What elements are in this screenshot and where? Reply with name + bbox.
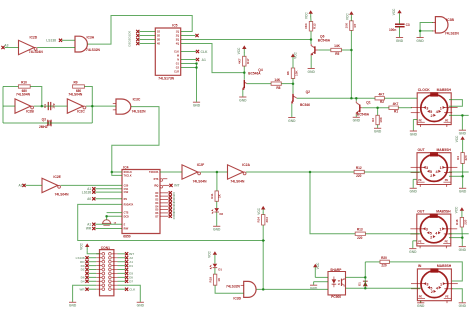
- svg-text:VCC: VCC: [257, 207, 261, 214]
- svg-text:CLOCK: CLOCK: [418, 88, 431, 92]
- svg-text:CLK: CLK: [129, 287, 136, 291]
- svg-text:R8: R8: [276, 86, 280, 90]
- svg-text:BC546A: BC546A: [248, 72, 261, 76]
- svg-text:BC546A: BC546A: [318, 38, 331, 42]
- svg-text:GND: GND: [353, 119, 361, 123]
- svg-text:220: 220: [381, 264, 387, 268]
- svg-text:TXDATA: TXDATA: [149, 171, 159, 174]
- svg-text:VCC: VCC: [455, 135, 459, 142]
- svg-text:TXCLK: TXCLK: [124, 175, 132, 178]
- svg-text:IC3D: IC3D: [233, 296, 241, 300]
- svg-text:3: 3: [426, 228, 428, 232]
- svg-text:D1: D1: [172, 195, 176, 199]
- svg-text:WR: WR: [86, 227, 92, 231]
- svg-text:RXDATA: RXDATA: [124, 204, 134, 207]
- svg-text:2MHZ: 2MHZ: [39, 125, 48, 129]
- svg-text:IRQ: IRQ: [154, 185, 158, 188]
- svg-text:A0: A0: [87, 197, 91, 201]
- svg-text:VCC: VCC: [80, 242, 84, 249]
- svg-text:2: 2: [431, 114, 433, 118]
- svg-text:GND: GND: [239, 98, 247, 102]
- svg-text:GND: GND: [410, 132, 418, 136]
- svg-text:4K7: 4K7: [378, 93, 384, 97]
- svg-text:CLR: CLR: [174, 71, 179, 74]
- svg-text:R/W: R/W: [124, 228, 129, 231]
- svg-text:220: 220: [356, 174, 362, 178]
- svg-text:A2: A2: [18, 184, 22, 188]
- svg-text:GND: GND: [310, 287, 318, 291]
- svg-text:100n: 100n: [389, 28, 396, 32]
- svg-text:4K7: 4K7: [393, 102, 399, 106]
- svg-text:CTS: CTS: [124, 212, 129, 215]
- svg-text:GND: GND: [410, 190, 418, 194]
- svg-text:C3: C3: [406, 23, 410, 27]
- svg-text:D7: D7: [172, 215, 176, 219]
- svg-text:IC3A: IC3A: [87, 35, 95, 39]
- svg-text:DCD: DCD: [124, 215, 129, 218]
- svg-text:CS2: CS2: [124, 191, 129, 194]
- svg-text:R16: R16: [455, 219, 459, 225]
- svg-text:GND: GND: [459, 304, 467, 308]
- svg-text:R9: R9: [73, 80, 77, 84]
- svg-text:IC2E: IC2E: [53, 175, 61, 179]
- svg-text:Q2: Q2: [306, 90, 311, 94]
- svg-text:R7: R7: [353, 23, 357, 27]
- svg-text:RTS: RTS: [154, 178, 159, 181]
- svg-text:GND: GND: [374, 130, 382, 134]
- svg-text:IC3C: IC3C: [133, 98, 141, 102]
- svg-text:C1: C1: [43, 104, 47, 108]
- svg-text:680: 680: [76, 89, 82, 93]
- svg-text:MAB5SH: MAB5SH: [437, 264, 452, 268]
- svg-text:3Q: 3Q: [176, 39, 179, 42]
- svg-text:3: 3: [426, 106, 428, 110]
- svg-text:A1: A1: [202, 58, 206, 62]
- svg-text:BC546A: BC546A: [357, 113, 370, 117]
- svg-text:GND: GND: [396, 39, 404, 43]
- svg-text:PE: PE: [445, 295, 449, 298]
- svg-text:14K: 14K: [274, 78, 281, 82]
- svg-text:R12: R12: [356, 166, 362, 170]
- svg-text:PE: PE: [418, 241, 422, 244]
- svg-text:GND: GND: [459, 190, 467, 194]
- svg-text:GND: GND: [459, 132, 467, 136]
- svg-text:74LS04N: 74LS04N: [29, 50, 44, 54]
- svg-text:74LS32N: 74LS32N: [132, 109, 147, 113]
- svg-text:R4: R4: [456, 156, 460, 160]
- svg-text:PE: PE: [419, 295, 423, 298]
- svg-text:GND: GND: [459, 248, 467, 252]
- svg-text:MAB5SH: MAB5SH: [437, 88, 452, 92]
- svg-text:LS138: LS138: [46, 38, 56, 42]
- svg-text:1: 1: [440, 282, 442, 286]
- svg-text:IC3B: IC3B: [446, 18, 454, 22]
- svg-text:R13: R13: [313, 23, 317, 29]
- svg-text:220: 220: [464, 219, 468, 224]
- svg-text:R17: R17: [246, 58, 250, 64]
- svg-text:PE: PE: [445, 241, 449, 244]
- svg-text:LS138: LS138: [82, 190, 92, 194]
- svg-text:CLK: CLK: [201, 50, 209, 54]
- svg-text:74LS04N: 74LS04N: [16, 93, 31, 97]
- svg-text:WR: WR: [80, 287, 86, 291]
- svg-text:M: M: [177, 55, 179, 58]
- svg-text:D6: D6: [172, 212, 176, 216]
- svg-text:1Q: 1Q: [176, 31, 179, 34]
- svg-text:BC546: BC546: [300, 103, 310, 107]
- svg-text:IC4: IC4: [123, 166, 128, 170]
- svg-text:IC2B: IC2B: [26, 110, 34, 114]
- svg-text:10K: 10K: [379, 116, 383, 122]
- svg-text:D1: D1: [218, 267, 222, 271]
- svg-text:IC2C: IC2C: [77, 110, 85, 114]
- svg-text:OUT: OUT: [418, 148, 426, 152]
- svg-text:D2: D2: [220, 212, 224, 216]
- svg-text:Q1: Q1: [366, 100, 371, 104]
- svg-text:1: 1: [440, 106, 442, 110]
- svg-text:D0: D0: [172, 192, 176, 196]
- svg-text:CLK: CLK: [174, 51, 179, 54]
- svg-text:14K: 14K: [334, 44, 341, 48]
- svg-text:SHARP: SHARP: [330, 268, 342, 272]
- svg-text:INT: INT: [174, 184, 179, 188]
- svg-text:CON1: CON1: [101, 246, 110, 250]
- svg-text:R1: R1: [394, 109, 398, 113]
- svg-text:PE: PE: [445, 119, 449, 122]
- svg-text:74LS32N: 74LS32N: [86, 48, 101, 52]
- svg-text:R2: R2: [380, 100, 384, 104]
- svg-text:VCC: VCC: [455, 206, 459, 213]
- svg-text:3D: 3D: [157, 39, 160, 42]
- svg-text:4D: 4D: [157, 43, 160, 46]
- svg-text:IN: IN: [418, 264, 422, 268]
- svg-text:N: N: [177, 59, 179, 62]
- svg-text:D4: D4: [81, 280, 85, 284]
- svg-text:RS: RS: [124, 198, 128, 201]
- svg-text:VCC: VCC: [392, 8, 396, 15]
- svg-text:R11: R11: [210, 193, 214, 199]
- svg-text:R20: R20: [381, 256, 387, 260]
- svg-text:4Q: 4Q: [176, 43, 179, 46]
- svg-text:VCC: VCC: [305, 12, 309, 19]
- svg-text:3K3: 3K3: [304, 23, 308, 29]
- svg-text:Q3: Q3: [42, 118, 46, 122]
- svg-text:220: 220: [357, 236, 363, 240]
- svg-text:2Q: 2Q: [176, 35, 179, 38]
- svg-text:18p: 18p: [51, 103, 55, 108]
- svg-text:PC900: PC900: [331, 295, 341, 299]
- svg-text:PE: PE: [419, 119, 423, 122]
- svg-text:R19: R19: [208, 277, 212, 283]
- svg-text:GND: GND: [137, 304, 145, 308]
- svg-text:D7: D7: [129, 280, 133, 284]
- svg-text:D4: D4: [172, 205, 176, 209]
- svg-text:VCC: VCC: [207, 250, 211, 257]
- svg-text:D2: D2: [128, 38, 132, 42]
- svg-text:2: 2: [431, 290, 433, 294]
- svg-text:D5: D5: [172, 209, 176, 213]
- svg-text:10K: 10K: [295, 70, 299, 76]
- svg-text:2D: 2D: [157, 35, 160, 38]
- svg-text:GND: GND: [69, 304, 77, 308]
- svg-text:R3: R3: [371, 118, 375, 122]
- svg-text:R14: R14: [256, 217, 260, 223]
- svg-text:220: 220: [464, 155, 468, 160]
- svg-text:74LS32N: 74LS32N: [445, 32, 460, 36]
- svg-text:VCC: VCC: [237, 47, 241, 54]
- svg-text:2: 2: [430, 235, 432, 239]
- svg-text:IC2A: IC2A: [242, 163, 250, 167]
- svg-text:D0: D0: [128, 30, 132, 34]
- svg-text:74LS04N: 74LS04N: [55, 192, 70, 196]
- svg-text:74LS173N: 74LS173N: [158, 77, 174, 81]
- svg-text:GND: GND: [288, 119, 296, 123]
- svg-text:A3: A3: [4, 44, 8, 48]
- svg-text:GND: GND: [409, 250, 417, 254]
- svg-text:3: 3: [426, 282, 428, 286]
- svg-text:74LS32N: 74LS32N: [226, 284, 241, 288]
- svg-text:OUT: OUT: [417, 209, 425, 213]
- svg-text:GND: GND: [193, 104, 201, 108]
- svg-text:R5: R5: [335, 52, 339, 56]
- svg-text:10K: 10K: [345, 22, 349, 28]
- svg-text:MAB5SH: MAB5SH: [436, 148, 451, 152]
- svg-text:GND: GND: [213, 228, 221, 232]
- svg-text:IC2F: IC2F: [197, 163, 204, 167]
- svg-text:6850: 6850: [123, 234, 131, 238]
- svg-text:IC5: IC5: [172, 23, 177, 27]
- svg-text:PE: PE: [418, 179, 422, 182]
- svg-text:R13: R13: [357, 228, 363, 232]
- svg-text:R10: R10: [21, 80, 27, 84]
- svg-text:MAB5SH: MAB5SH: [436, 209, 451, 213]
- svg-text:VCC: VCC: [345, 13, 349, 20]
- svg-text:PE: PE: [445, 179, 449, 182]
- svg-text:1: 1: [440, 166, 442, 170]
- svg-text:D1: D1: [357, 282, 361, 286]
- svg-text:74LS04N: 74LS04N: [68, 93, 83, 97]
- svg-text:4K7: 4K7: [237, 58, 241, 64]
- svg-text:D1: D1: [129, 264, 133, 268]
- svg-text:D2: D2: [172, 198, 176, 202]
- svg-text:1: 1: [439, 228, 441, 232]
- svg-text:GND: GND: [308, 70, 316, 74]
- svg-text:D3: D3: [128, 42, 132, 46]
- svg-text:GND: GND: [417, 304, 425, 308]
- svg-text:D2: D2: [81, 268, 85, 272]
- svg-text:VCC: VCC: [316, 262, 320, 269]
- svg-text:1D: 1D: [157, 31, 160, 34]
- svg-text:3: 3: [426, 166, 428, 170]
- svg-text:VCC: VCC: [294, 51, 298, 58]
- svg-text:2: 2: [430, 174, 432, 178]
- svg-text:D1: D1: [128, 34, 132, 38]
- svg-text:D3: D3: [172, 202, 176, 206]
- svg-text:74LS04N: 74LS04N: [230, 180, 245, 184]
- svg-text:GND: GND: [416, 39, 424, 43]
- svg-text:74LS04N: 74LS04N: [193, 180, 208, 184]
- svg-text:3K3: 3K3: [265, 217, 269, 223]
- svg-text:R6: R6: [286, 71, 290, 75]
- svg-text:IC2D: IC2D: [30, 36, 38, 40]
